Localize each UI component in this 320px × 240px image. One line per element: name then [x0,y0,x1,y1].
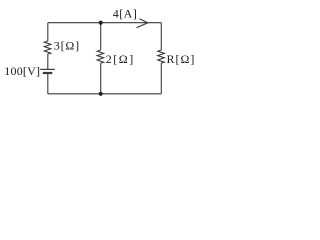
resistor R R[ohm] zigzag [158,50,165,63]
node top junction dot [99,21,103,25]
wire left branch lower [47,74,49,94]
svg-text:4[A]: 4[A] [113,6,138,20]
wire right branch lower [160,63,162,94]
svg-text:R[Ω]: R[Ω] [167,52,196,66]
node bottom junction dot [99,92,103,96]
svg-text:3[Ω]: 3[Ω] [54,39,80,53]
resistor R_left 3[ohm] zigzag [44,41,51,54]
wire bottom horizontal [48,93,162,95]
wire top horizontal [48,22,162,24]
wire left branch middle [47,54,49,69]
wire middle branch upper [100,23,102,50]
current arrow head 4[A] [137,19,148,28]
wire left branch upper [47,23,49,41]
resistor R_mid 2[ohm] zigzag [97,50,104,63]
battery E 100[V] short plate [43,72,53,74]
wire middle branch lower [100,63,102,94]
svg-text:100[V]: 100[V] [4,64,40,78]
svg-text:2[Ω]: 2[Ω] [106,52,135,66]
battery E 100[V] long plate [40,68,55,70]
wire right branch upper [160,23,162,50]
